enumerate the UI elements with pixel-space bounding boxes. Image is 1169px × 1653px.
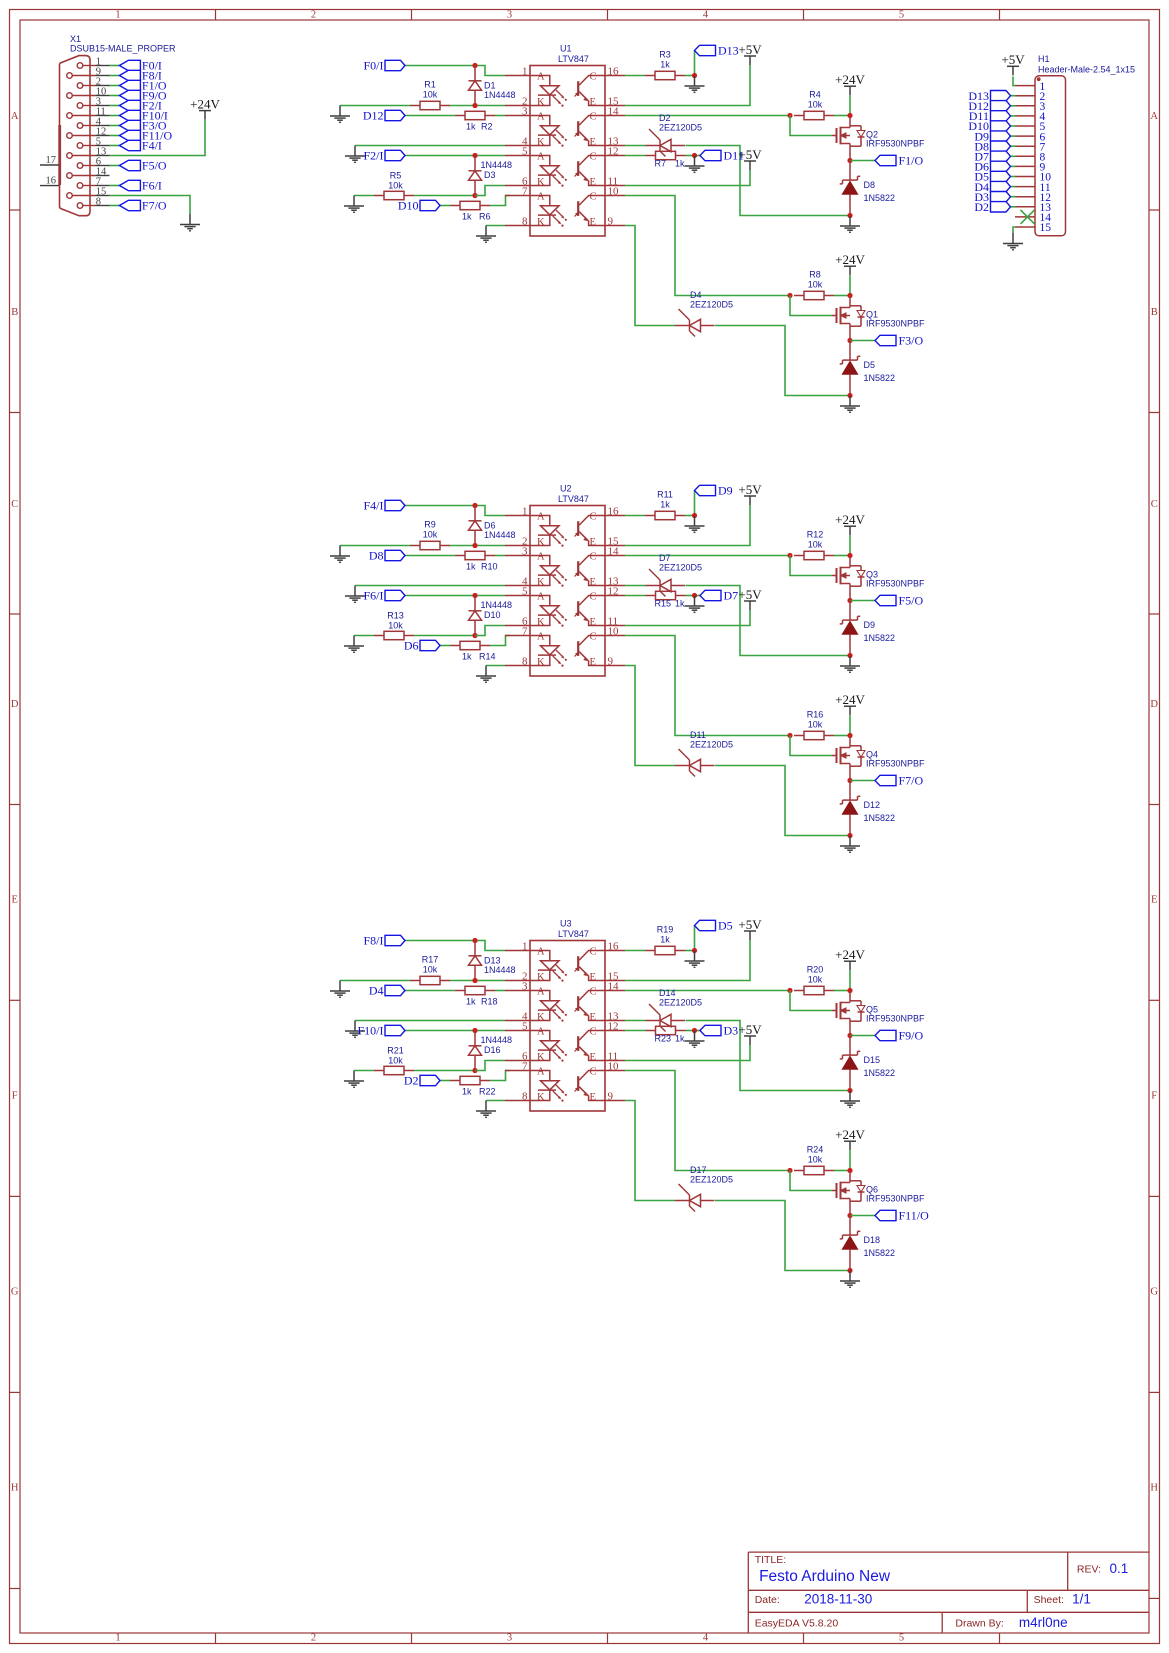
net flag F7/O — [119, 199, 167, 213]
svg-text:D10: D10 — [484, 610, 501, 620]
net flag F1/O — [875, 154, 924, 168]
junction — [472, 1068, 477, 1073]
svg-text:E: E — [590, 1052, 596, 1063]
U3 pin 4 — [505, 1011, 530, 1023]
svg-text:F7/O: F7/O — [142, 199, 167, 213]
svg-text:2EZ120D5: 2EZ120D5 — [659, 123, 702, 133]
net flag D4 — [974, 180, 1010, 194]
svg-text:R4: R4 — [809, 90, 821, 100]
wire — [625, 226, 675, 326]
net flag F5/O — [119, 159, 167, 173]
wire — [495, 115, 505, 117]
svg-text:K: K — [537, 97, 545, 108]
U3 pin 16 — [605, 941, 625, 953]
ground — [1003, 233, 1023, 250]
wire — [355, 1020, 505, 1022]
svg-text:2EZ120D5: 2EZ120D5 — [690, 300, 733, 310]
svg-text:IRF9530NPBF: IRF9530NPBF — [866, 1194, 925, 1204]
no-connect X on H1 pin 14 — [1021, 210, 1035, 224]
svg-text:10k: 10k — [388, 180, 403, 190]
svg-text:D: D — [11, 699, 19, 710]
ground — [685, 596, 705, 613]
svg-text:9: 9 — [608, 216, 614, 228]
svg-text:1k: 1k — [675, 599, 685, 609]
svg-text:B: B — [11, 307, 18, 318]
svg-text:7: 7 — [522, 626, 528, 638]
svg-text:+24V: +24V — [835, 1127, 865, 1142]
U1 pin 2 — [505, 96, 530, 108]
svg-text:1/1: 1/1 — [1072, 1591, 1091, 1606]
junction — [847, 1033, 852, 1038]
svg-text:15: 15 — [1040, 222, 1052, 234]
transistor Q5 IRF9530NPBF — [832, 991, 925, 1036]
power +24V — [844, 526, 856, 535]
wire — [490, 1071, 510, 1081]
U1 pin 8 — [505, 216, 530, 228]
U2 LED channel 2 — [530, 552, 567, 588]
svg-text:+24V: +24V — [835, 252, 865, 267]
svg-text:LTV847: LTV847 — [558, 54, 589, 64]
net flag F4/I — [363, 499, 405, 513]
wire — [414, 635, 475, 637]
H1 pin 8 — [1015, 152, 1046, 164]
connector X1 DSUB15-MALE_PROPER — [60, 34, 177, 216]
svg-text:C: C — [11, 499, 18, 510]
svg-text:D8: D8 — [369, 549, 384, 563]
H1 pin 1 — [1015, 81, 1046, 93]
wire — [110, 95, 120, 97]
svg-text:C: C — [590, 512, 597, 523]
svg-text:D4: D4 — [369, 984, 384, 998]
diode D16 1N4448 — [469, 1031, 513, 1071]
wire — [440, 645, 450, 647]
U2 pin 13 — [605, 576, 625, 588]
svg-text:A: A — [537, 592, 545, 603]
junction — [847, 653, 852, 658]
wire — [686, 1021, 851, 1091]
net flag F0/I — [363, 59, 405, 73]
wire — [1011, 155, 1016, 157]
svg-text:K: K — [537, 1092, 545, 1103]
svg-text:R18: R18 — [481, 996, 498, 1006]
wire — [1011, 165, 1016, 167]
svg-text:16: 16 — [608, 941, 620, 953]
wire — [625, 585, 646, 587]
svg-text:1N4448: 1N4448 — [484, 965, 516, 975]
svg-text:H: H — [1150, 1483, 1158, 1494]
net flag D2 — [974, 200, 1010, 214]
junction — [692, 513, 697, 518]
svg-text:A: A — [537, 112, 545, 123]
svg-text:8: 8 — [96, 197, 101, 208]
resistor R7 1k — [646, 151, 686, 168]
wire — [1011, 105, 1016, 107]
net flag D12 — [363, 109, 405, 123]
svg-text:E: E — [590, 657, 596, 668]
ground — [476, 1101, 496, 1118]
wire — [790, 116, 832, 136]
svg-text:14: 14 — [608, 106, 620, 118]
wire — [625, 170, 750, 186]
U3 pin 5 — [505, 1021, 530, 1033]
U2 pin 9 — [605, 656, 625, 668]
wire — [625, 990, 790, 992]
U1 pin 1 — [505, 66, 530, 78]
svg-text:A: A — [537, 1067, 545, 1078]
U1 phototransistor channel 3 — [575, 152, 606, 188]
resistor R23 1k — [646, 1026, 686, 1043]
svg-text:D2: D2 — [659, 113, 671, 123]
svg-text:F3/O: F3/O — [899, 334, 924, 348]
resistor R9 10k — [410, 520, 450, 550]
svg-text:A: A — [537, 1027, 545, 1038]
svg-text:A: A — [537, 512, 545, 523]
resistor R22 1k — [450, 1076, 496, 1096]
svg-text:2018-11-30: 2018-11-30 — [804, 1591, 872, 1606]
svg-text:C: C — [590, 192, 597, 203]
svg-text:R1: R1 — [424, 80, 436, 90]
H1 pin 3 — [1015, 101, 1046, 113]
ground — [685, 76, 705, 93]
svg-text:R24: R24 — [807, 1145, 824, 1155]
svg-text:D8: D8 — [864, 180, 876, 190]
wire — [625, 515, 645, 517]
junction — [787, 988, 792, 993]
svg-text:R16: R16 — [807, 710, 824, 720]
U2 pin 14 — [605, 546, 625, 558]
svg-text:+5V: +5V — [1001, 52, 1025, 67]
H1 pin 4 — [1015, 111, 1046, 123]
junction — [692, 1028, 697, 1033]
ground — [330, 106, 350, 123]
power +5V — [744, 1036, 756, 1045]
svg-text:F9/O: F9/O — [899, 1029, 924, 1043]
net flag D11 — [969, 109, 1011, 123]
svg-text:D14: D14 — [659, 988, 676, 998]
resistor R11 1k — [645, 490, 685, 520]
net flag D5 — [695, 919, 733, 933]
net flag F9/O — [119, 89, 167, 103]
net flag D13 — [968, 89, 1010, 103]
svg-text:1k: 1k — [675, 159, 685, 169]
junction — [847, 393, 852, 398]
junction — [847, 1088, 852, 1093]
svg-text:10k: 10k — [808, 720, 823, 730]
net flag D7 — [974, 150, 1010, 164]
svg-text:R15: R15 — [655, 599, 672, 609]
net flag F10/I — [357, 1024, 405, 1038]
junction — [787, 1168, 792, 1173]
transistor Q1 IRF9530NPBF — [832, 296, 925, 341]
wire — [685, 515, 695, 517]
ground — [345, 1021, 365, 1038]
svg-text:14: 14 — [608, 981, 620, 993]
wire — [625, 155, 646, 157]
svg-text:16: 16 — [608, 66, 620, 78]
svg-text:7: 7 — [522, 186, 528, 198]
svg-text:K: K — [537, 972, 545, 983]
svg-text:+24V: +24V — [835, 512, 865, 527]
power +5V — [744, 496, 756, 505]
svg-text:C: C — [590, 552, 597, 563]
svg-text:A: A — [537, 72, 545, 83]
wire — [405, 595, 505, 597]
svg-text:10: 10 — [608, 186, 620, 198]
svg-text:R12: R12 — [807, 530, 824, 540]
net flag F7/O — [875, 774, 924, 788]
X1 pin 7 — [77, 177, 109, 189]
svg-text:K: K — [537, 1012, 545, 1023]
schottky diode D5 1N5822 — [840, 341, 895, 396]
svg-text:F5/O: F5/O — [899, 594, 924, 608]
wire — [1013, 227, 1016, 233]
svg-text:F7/O: F7/O — [899, 774, 924, 788]
junction — [787, 113, 792, 118]
resistor R13 10k — [374, 611, 414, 640]
net flag F2/I — [119, 99, 162, 113]
svg-text:R8: R8 — [809, 270, 821, 280]
net flag D10 — [968, 119, 1010, 133]
schottky diode D12 1N5822 — [840, 781, 895, 836]
svg-text:R21: R21 — [387, 1046, 404, 1056]
svg-text:E: E — [590, 217, 596, 228]
wire — [694, 926, 696, 951]
wire — [849, 275, 851, 295]
svg-text:1N5822: 1N5822 — [864, 813, 896, 823]
svg-text:F8/I: F8/I — [363, 934, 383, 948]
wire — [849, 535, 851, 555]
svg-text:DSUB15-MALE_PROPER: DSUB15-MALE_PROPER — [70, 44, 176, 54]
wire — [850, 780, 875, 782]
wire — [354, 1070, 374, 1072]
resistor R10 1k — [455, 551, 498, 571]
svg-text:10k: 10k — [388, 1055, 403, 1065]
svg-text:10k: 10k — [808, 975, 823, 985]
net flag D10 — [398, 199, 440, 213]
svg-text:10: 10 — [608, 1061, 620, 1073]
power +5V — [744, 931, 756, 940]
junction — [472, 503, 477, 508]
svg-text:5: 5 — [899, 1632, 904, 1643]
svg-text:2: 2 — [311, 1632, 316, 1643]
wire — [625, 145, 646, 147]
svg-text:IRF9530NPBF: IRF9530NPBF — [866, 319, 925, 329]
svg-text:4: 4 — [703, 1632, 709, 1643]
wire — [1011, 115, 1016, 117]
ground — [685, 951, 705, 968]
wire — [1011, 135, 1016, 137]
junction — [847, 733, 852, 738]
svg-text:D13: D13 — [484, 956, 501, 966]
svg-text:C: C — [590, 112, 597, 123]
svg-text:4: 4 — [703, 10, 709, 21]
svg-text:16: 16 — [608, 506, 620, 518]
svg-text:1k: 1k — [466, 996, 476, 1006]
junction — [847, 1268, 852, 1273]
U3 pin 11 — [605, 1051, 625, 1063]
net flag D3 — [974, 190, 1010, 204]
svg-text:D2: D2 — [404, 1074, 419, 1088]
junction — [472, 193, 477, 198]
ground — [840, 1091, 860, 1108]
net flag F1/O — [119, 79, 167, 93]
svg-text:G: G — [11, 1287, 19, 1298]
net flag F4/I — [119, 139, 162, 153]
wire — [486, 1100, 505, 1102]
U2 phototransistor channel 2 — [575, 552, 606, 588]
U1 pin 11 — [605, 176, 625, 188]
wire — [110, 65, 120, 67]
svg-text:K: K — [537, 537, 545, 548]
wire — [405, 941, 505, 951]
junction — [472, 593, 477, 598]
wire — [475, 626, 505, 636]
wire — [110, 120, 206, 156]
svg-text:K: K — [537, 577, 545, 588]
resistor R5 10k — [374, 171, 414, 200]
power +5V — [744, 601, 756, 610]
svg-text:+5V: +5V — [738, 587, 762, 602]
junction — [472, 543, 477, 548]
wire — [440, 1080, 450, 1082]
svg-text:D7: D7 — [659, 553, 671, 563]
svg-text:8: 8 — [522, 1091, 528, 1103]
U1 pin 15 — [605, 96, 625, 108]
H1 pin 5 — [1015, 121, 1046, 133]
svg-text:1N4448: 1N4448 — [481, 600, 513, 610]
U1 pin 10 — [605, 186, 625, 198]
net flag D8 — [974, 139, 1010, 153]
U1 LED channel 1 — [530, 72, 567, 108]
net flag F9/O — [875, 1029, 924, 1043]
svg-text:+5V: +5V — [738, 917, 762, 932]
net flag D7 — [700, 589, 738, 603]
svg-text:1k: 1k — [466, 121, 476, 131]
U3 LED channel 3 — [530, 1027, 567, 1063]
net flag D3 — [700, 1024, 738, 1038]
wire — [625, 1071, 790, 1171]
H1 pin 14 — [1015, 212, 1051, 224]
wire — [694, 491, 696, 516]
junction — [692, 948, 697, 953]
svg-text:3: 3 — [522, 981, 528, 993]
svg-text:E: E — [590, 577, 596, 588]
wire — [1011, 176, 1016, 178]
svg-text:12: 12 — [608, 1021, 619, 1033]
U3 pin 7 — [505, 1061, 530, 1073]
svg-text:A: A — [11, 111, 19, 122]
resistor R6 1k — [450, 201, 491, 221]
net flag D13 — [695, 44, 739, 58]
wire — [354, 635, 374, 637]
svg-text:H: H — [11, 1483, 19, 1494]
svg-text:E: E — [590, 1092, 596, 1103]
junction — [847, 598, 852, 603]
svg-text:C: C — [1151, 499, 1158, 510]
wire — [625, 1101, 675, 1201]
H1 pin 10 — [1015, 172, 1051, 184]
svg-text:U2: U2 — [560, 484, 572, 494]
svg-text:LTV847: LTV847 — [558, 494, 589, 504]
junction — [692, 593, 697, 598]
U1 pin 7 — [505, 186, 530, 198]
svg-text:C: C — [590, 987, 597, 998]
schottky diode D9 1N5822 — [840, 601, 895, 656]
diode D10 1N4448 — [469, 596, 513, 636]
svg-text:1: 1 — [522, 506, 528, 518]
junction — [692, 153, 697, 158]
svg-text:R5: R5 — [390, 171, 402, 181]
X1 pin 8 — [77, 197, 109, 209]
svg-text:D7: D7 — [724, 589, 739, 603]
U2 LED channel 4 — [530, 632, 567, 668]
ground — [345, 146, 365, 163]
svg-text:9: 9 — [608, 1091, 614, 1103]
optocoupler U1 LTV847 — [530, 44, 605, 237]
svg-text:TITLE:: TITLE: — [755, 1554, 787, 1566]
U1 phototransistor channel 1 — [575, 72, 606, 108]
svg-text:10k: 10k — [808, 100, 823, 110]
svg-text:+24V: +24V — [835, 947, 865, 962]
svg-text:1N5822: 1N5822 — [864, 193, 896, 203]
wire — [625, 65, 750, 106]
svg-text:IRF9530NPBF: IRF9530NPBF — [866, 579, 925, 589]
svg-text:12: 12 — [608, 146, 619, 158]
ground — [840, 656, 860, 673]
X1 pin 13 — [67, 147, 110, 159]
wire — [354, 195, 374, 197]
power +5V — [1007, 66, 1019, 75]
U1 pin 6 — [505, 176, 530, 188]
U2 pin 6 — [505, 616, 530, 628]
wire — [110, 145, 120, 147]
transistor Q6 IRF9530NPBF — [832, 1171, 925, 1216]
ground — [476, 666, 496, 683]
diode D1 1N4448 — [469, 66, 516, 106]
svg-text:K: K — [537, 1052, 545, 1063]
wire — [475, 1061, 505, 1071]
wire — [625, 196, 790, 296]
power +24V — [844, 706, 856, 715]
junction — [847, 553, 852, 558]
wire — [834, 990, 850, 992]
wire — [849, 970, 851, 990]
svg-text:A: A — [537, 632, 545, 643]
svg-text:E: E — [590, 537, 596, 548]
svg-text:E: E — [1151, 895, 1157, 906]
junction — [847, 988, 852, 993]
diode D6 1N4448 — [469, 506, 516, 546]
wire — [849, 715, 851, 735]
junction — [787, 733, 792, 738]
svg-text:2EZ120D5: 2EZ120D5 — [690, 1175, 733, 1185]
svg-text:5: 5 — [522, 146, 528, 158]
ground — [345, 586, 365, 603]
net flag D11 — [700, 149, 744, 163]
svg-text:m4rl0ne: m4rl0ne — [1019, 1615, 1068, 1630]
svg-text:Sheet:: Sheet: — [1034, 1594, 1064, 1606]
svg-text:1N5822: 1N5822 — [864, 373, 896, 383]
wire — [450, 105, 505, 107]
wire — [475, 186, 505, 196]
svg-text:+5V: +5V — [738, 42, 762, 57]
net flag D6 — [974, 160, 1010, 174]
svg-text:A: A — [537, 192, 545, 203]
net flag D9 — [695, 484, 733, 498]
svg-text:10k: 10k — [808, 540, 823, 550]
svg-text:F4/I: F4/I — [142, 139, 162, 153]
svg-text:10k: 10k — [808, 280, 823, 290]
